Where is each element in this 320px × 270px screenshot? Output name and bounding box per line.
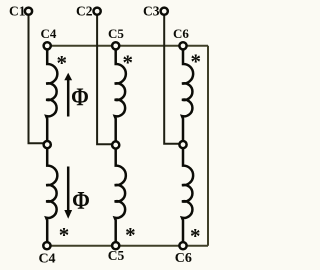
wire: bottom bus C4-C5-C6 bbox=[47, 245, 208, 247]
node C5 top circle bbox=[112, 42, 119, 49]
winding L1 upper (branch 1, C4) bbox=[46, 46, 57, 145]
svg-text:C1: C1 bbox=[9, 4, 26, 19]
node C4 bottom circle bbox=[43, 242, 50, 249]
svg-text:C5: C5 bbox=[108, 248, 125, 263]
node C4 top circle bbox=[44, 42, 51, 49]
terminal C1 circle bbox=[25, 8, 32, 15]
svg-text:C2: C2 bbox=[76, 4, 93, 19]
wire: C3 drop to middle node of branch 3 bbox=[164, 11, 183, 144]
svg-text:C6: C6 bbox=[175, 251, 192, 266]
wire: top bus C4-C5-C6 bbox=[47, 45, 208, 47]
svg-text:*: * bbox=[190, 224, 201, 248]
terminal C2 circle bbox=[94, 8, 101, 15]
winding L1 lower (branch 1) bbox=[46, 145, 57, 246]
svg-text:C5: C5 bbox=[108, 26, 124, 41]
wire: C1 drop to middle node of branch 1 bbox=[29, 11, 48, 143]
svg-text:*: * bbox=[57, 51, 68, 75]
node C6 bottom circle bbox=[179, 242, 186, 249]
svg-text:*: * bbox=[191, 50, 202, 74]
wire: C2 drop to middle node of branch 2 bbox=[97, 11, 116, 144]
winding L3 upper (branch 3, C6) bbox=[182, 46, 193, 145]
svg-text:C3: C3 bbox=[143, 4, 160, 19]
node: middle junction branch 2 bbox=[112, 141, 119, 148]
node: middle junction branch 3 bbox=[179, 141, 186, 148]
svg-text:*: * bbox=[123, 50, 134, 74]
wire: right side vertical (top bus to bottom bus) bbox=[207, 46, 209, 246]
winding L2 upper (branch 2, C5) bbox=[115, 46, 126, 145]
svg-text:C4: C4 bbox=[38, 251, 55, 266]
flux arrow down (branch 1 lower) bbox=[67, 167, 70, 212]
svg-text:Φ: Φ bbox=[71, 83, 89, 111]
svg-text:C4: C4 bbox=[41, 26, 57, 41]
svg-text:*: * bbox=[125, 223, 136, 247]
svg-text:*: * bbox=[59, 223, 70, 247]
flux arrow up (branch 1 upper) bbox=[67, 80, 70, 117]
winding L2 lower (branch 2) bbox=[115, 145, 126, 246]
node C6 top circle bbox=[179, 42, 186, 49]
svg-text:Φ: Φ bbox=[72, 187, 90, 215]
winding L3 lower (branch 3) bbox=[182, 145, 193, 246]
node C5 bottom circle bbox=[112, 242, 119, 249]
node: middle junction branch 1 bbox=[44, 141, 51, 148]
svg-text:C6: C6 bbox=[173, 26, 189, 41]
terminal C3 circle bbox=[161, 8, 168, 15]
